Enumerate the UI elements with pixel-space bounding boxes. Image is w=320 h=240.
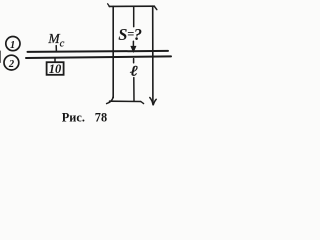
frame top right hook — [154, 6, 157, 9]
frame right vertical — [152, 6, 154, 102]
wire rod line 1 (upper shaft) — [28, 51, 169, 52]
scan edge artifact — [0, 51, 1, 63]
node label circle 1 — [6, 37, 20, 51]
svg-text:?: ? — [134, 25, 142, 44]
label l (length) — [130, 62, 138, 78]
frame bottom line — [110, 100, 141, 102]
frame top line — [109, 5, 154, 7]
node label circle 2 — [4, 55, 19, 70]
frame top left flick — [108, 4, 110, 7]
svg-text:78: 78 — [95, 111, 107, 125]
svg-text:ℓ: ℓ — [130, 62, 138, 78]
tick Mc pointer — [55, 46, 57, 52]
arrow S upper segment — [133, 6, 135, 26]
frame bottom right flick — [141, 102, 144, 104]
arrow head right vertical (down) — [150, 98, 156, 106]
svg-text:S: S — [118, 25, 127, 44]
svg-text:2: 2 — [8, 59, 15, 70]
frame left vertical — [112, 6, 114, 97]
tick box pointer — [54, 58, 56, 62]
frame left bottom hook (arrow) — [107, 97, 114, 104]
arrow S lower segment — [132, 41, 134, 46]
svg-text:Рис.: Рис. — [62, 111, 85, 125]
arrow head S (down onto rod) — [131, 46, 136, 52]
wire l upper dash — [133, 59, 135, 63]
svg-text:10: 10 — [49, 62, 62, 76]
svg-text:1: 1 — [10, 40, 15, 51]
wire l lower segment — [133, 78, 135, 101]
component box 10 — [47, 62, 64, 75]
wire rod line 2 (lower shaft) — [26, 56, 171, 58]
